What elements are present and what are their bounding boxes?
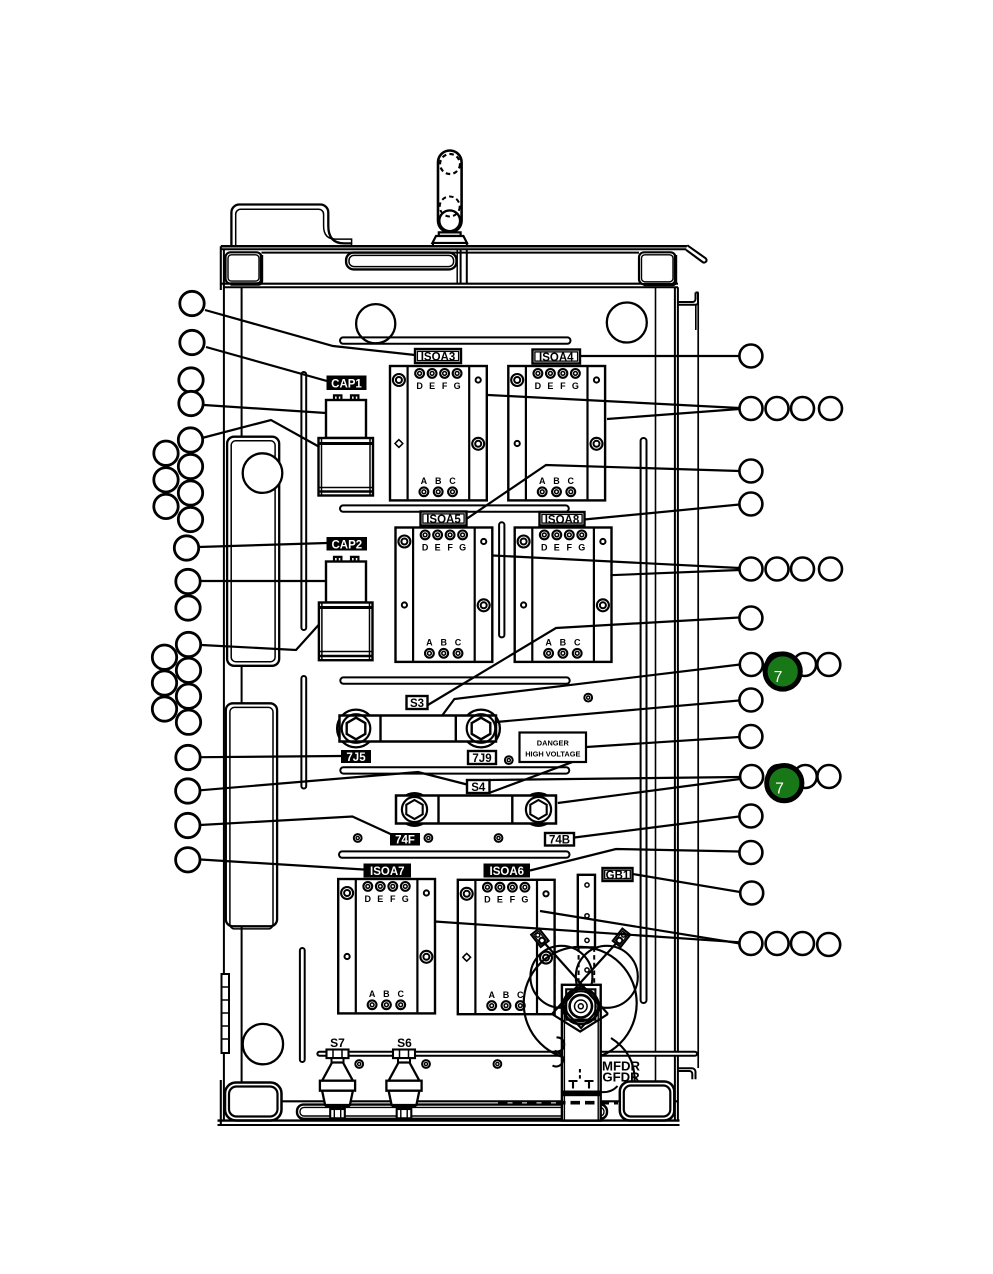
card guide strip (222, 974, 230, 1053)
leader from ISOA8 label (584, 505, 739, 520)
callout circle L9 (176, 779, 200, 803)
svg-text:7: 7 (774, 669, 783, 686)
svg-text:ISOA5: ISOA5 (426, 514, 461, 526)
dashed stub below connector (579, 1069, 581, 1080)
leader from ISOA6 label (530, 849, 739, 871)
shunt S4 bar (396, 796, 556, 824)
left edge rail (241, 287, 243, 1101)
callout row R5 (740, 558, 763, 581)
module ISOA3 (390, 366, 487, 500)
top rail bottom line (221, 283, 678, 285)
label S3 (407, 696, 428, 710)
callout green 7a (765, 654, 800, 689)
hole bottom-left (243, 1024, 283, 1064)
callout circle L5 (174, 536, 198, 560)
leader from ISOA4 right edge (607, 409, 740, 419)
callout row R7 (740, 653, 763, 676)
leader from S3 label (427, 618, 739, 706)
leader from ISOA4 label (580, 355, 740, 357)
hold-down clamp T left (569, 1081, 578, 1089)
strap X line b (552, 938, 621, 1014)
connector diamond (561, 985, 600, 1028)
capacitor CAP2 body (326, 562, 366, 603)
leader from GB1 label (633, 874, 740, 892)
callout circle L4 (179, 391, 203, 415)
bottom interior line (224, 1100, 678, 1102)
insulator S6 (386, 1050, 421, 1119)
leader to ISOA3 label (205, 310, 415, 355)
module ISOA8 (515, 528, 612, 662)
top rail (221, 245, 688, 248)
shunt S4 left nut (402, 797, 427, 822)
bracket hole (243, 453, 283, 493)
ISOA3 keying diamond (395, 440, 403, 448)
CHASSIS (218, 151, 707, 1126)
callout circle L11 (176, 848, 200, 872)
screw right of S3 (584, 694, 592, 702)
svg-text:CAP2: CAP2 (331, 539, 362, 551)
left edge inner (223, 249, 225, 1120)
capacitor CAP2 terminals (334, 557, 341, 562)
svg-text:DANGER: DANGER (537, 738, 570, 747)
screw near 7J9 (505, 756, 513, 764)
bottom recess slot (297, 1105, 607, 1119)
label 74B (545, 833, 574, 847)
CALLOUTS (152, 291, 842, 956)
fan lobe left (530, 946, 592, 1008)
svg-text:74B: 74B (549, 835, 570, 847)
leader to CAP1 base (202, 420, 320, 447)
leader to CAP2 label (199, 543, 328, 547)
MODULES (338, 366, 611, 1014)
ISOA6 hidden edges (dashed) (521, 936, 555, 1014)
svg-text:ISOA7: ISOA7 (370, 866, 405, 878)
lifting handle top-left (231, 205, 351, 247)
svg-text:S7: S7 (330, 1036, 345, 1050)
svg-text:GB1: GB1 (606, 870, 630, 882)
stud pin hole bottom (439, 210, 460, 231)
bottom edge outer (218, 1119, 680, 1121)
interior top line (224, 286, 678, 288)
vent slot row3 (340, 677, 569, 683)
label 7J5 (inverse) (341, 750, 371, 764)
vertical slot left upper (301, 372, 306, 630)
SLOTS (300, 337, 647, 1062)
vertical slot center (499, 522, 504, 637)
shunt S4 right terminal outer (522, 793, 555, 826)
stud mount verticals (460, 249, 462, 284)
screw row under S4 c (495, 834, 503, 842)
stud pin hole top (hidden) (440, 154, 460, 174)
LABELS (327, 349, 641, 1085)
callout circle L7 (176, 596, 200, 620)
top rail front edge (262, 252, 640, 254)
label ISOA6 (inverse) (484, 864, 531, 879)
leader from S3 bar end (496, 701, 739, 723)
leader from S4 bar end (558, 779, 740, 803)
callout cluster 1 (178, 428, 202, 452)
callout circle L6 (176, 569, 200, 593)
label ISOA5 (421, 512, 467, 527)
SHUNTS (337, 694, 592, 842)
leader from ISOA6 area (540, 911, 740, 944)
callout circle R9 (739, 725, 762, 748)
connector channel (562, 985, 601, 1121)
label ISOA3 (415, 349, 461, 364)
callout circle R8 (739, 689, 762, 712)
right outer panel (679, 293, 696, 303)
shunt S4 right nut (526, 797, 551, 822)
module ISOA4 (508, 366, 605, 500)
right rail 4 (677, 287, 679, 1120)
shunt S3 left terminal outer (337, 710, 375, 748)
leader from ISOA7 right edge (435, 922, 740, 943)
label ISOA8 (540, 512, 585, 526)
callout circle R11 (739, 805, 762, 828)
corner foot bottom-left (225, 1083, 282, 1121)
stud base flange (439, 232, 461, 236)
vent slot row1 (340, 337, 571, 343)
right rail 1 (655, 287, 657, 1081)
callout circle R4 (739, 493, 762, 516)
module ISOA6 (458, 880, 555, 1014)
leader to ISOA7 label (201, 860, 364, 870)
label 74F (inverse) (390, 833, 420, 847)
leader from ISOA5 right edge (493, 556, 740, 569)
screw row under S4 a (354, 834, 362, 842)
strap V (552, 1014, 608, 1032)
top rail recess slot (346, 253, 456, 270)
svg-text:74F: 74F (395, 835, 415, 847)
callout circle R3 (739, 460, 762, 483)
screw right of S7 (355, 1060, 363, 1068)
shunt S4 left terminal outer (398, 793, 431, 826)
svg-text:HIGH VOLTAGE: HIGH VOLTAGE (525, 749, 580, 758)
wire arc left b (553, 1052, 564, 1066)
callout circle L1 (180, 291, 204, 315)
hold-down clamp T right (585, 1081, 594, 1089)
leader from S4 label to right (489, 777, 740, 780)
svg-text:S3: S3 (410, 698, 424, 710)
strap X line a (540, 938, 608, 1014)
svg-text:7J5: 7J5 (346, 752, 366, 764)
callout row R10 (740, 765, 763, 788)
svg-text:S6: S6 (397, 1036, 412, 1050)
corner foot top-left (226, 252, 262, 283)
label 7J9 (468, 751, 496, 765)
leader from S3 bar top (442, 665, 740, 717)
callout circle R12 (739, 841, 762, 864)
left edge outer (220, 246, 222, 290)
CAPS (319, 395, 374, 660)
svg-text:7J9: 7J9 (472, 753, 491, 765)
connector plate (566, 989, 595, 1019)
shunt S3 left nut (342, 714, 371, 743)
shunt S3 right terminal outer (462, 710, 500, 748)
vertical slot right (641, 438, 647, 1003)
callout circle R1 (739, 345, 762, 368)
module ISOA5 (396, 528, 493, 662)
leader to 7J5 label (202, 756, 342, 757)
hole top-right (607, 303, 647, 343)
connector rings (563, 989, 599, 1025)
callout circle L2 (180, 330, 204, 354)
LEADERS (199, 310, 741, 944)
callout row R14 (739, 932, 762, 955)
label ISOA7 (inverse) (364, 864, 412, 879)
GB1 mounting strip (578, 875, 595, 948)
callout circle R13 (740, 882, 763, 905)
capacitor CAP1 body (326, 400, 366, 438)
callout circle L3 (179, 368, 203, 392)
capacitor CAP1 base (319, 438, 374, 496)
leader DANGER to S4 (489, 757, 586, 793)
label ISOA4 (533, 350, 581, 365)
mounting tab right (613, 929, 630, 947)
callout circle L10 (176, 813, 200, 837)
fan lobe right (576, 946, 638, 1008)
svg-text:ISOA6: ISOA6 (490, 866, 525, 878)
leader to CAP2 body (201, 580, 326, 582)
module ISOA7 (338, 879, 435, 1013)
screw row under S4 b (425, 834, 433, 842)
GB1 strip hidden part (578, 947, 580, 984)
bracket upper-left (227, 437, 279, 666)
dashed black line bottom (498, 1101, 618, 1105)
top rail right diagonal end (686, 245, 707, 262)
leader to 74F label (200, 817, 391, 835)
label GB1 (603, 868, 633, 882)
vertical slot left mid (301, 676, 306, 789)
label DANGER HIGH VOLTAGE (520, 733, 587, 763)
SWITCHES (320, 1050, 501, 1119)
right rail 3 (674, 287, 676, 1120)
bus rod bottom (317, 1052, 697, 1056)
capacitor CAP1 terminals (334, 395, 341, 400)
svg-text:GFDR: GFDR (602, 1070, 640, 1085)
FAN (317, 875, 697, 1121)
screw mid bottom (494, 1060, 502, 1068)
vertical slot left lower (300, 948, 305, 1062)
wire arc bottom (601, 1086, 618, 1092)
callout cluster 2 (176, 632, 200, 656)
svg-text:ISOA4: ISOA4 (539, 352, 574, 364)
shunt S3 bar (340, 716, 497, 742)
svg-text:7: 7 (775, 781, 784, 798)
callout circle R6 (739, 607, 762, 630)
hole top-left (356, 304, 395, 343)
vent slot row4 (340, 767, 569, 773)
corner foot bottom-right (620, 1082, 675, 1121)
wire arc right (611, 1038, 635, 1083)
leader to CAP1 label (206, 347, 327, 381)
vent slot row5 (339, 851, 570, 857)
corner foot top-right (639, 252, 676, 284)
label CAP2 (inverse) (327, 537, 368, 551)
leader from DANGER label (587, 737, 740, 747)
leader from ISOA8 right edge (610, 570, 739, 575)
lifting stud (438, 151, 462, 233)
leader to CAP2 base (202, 625, 320, 651)
mounting tab left (531, 929, 548, 947)
label CAP1 (inverse) (327, 376, 367, 391)
callout green 7b (767, 766, 802, 801)
callout circle L8 (176, 745, 200, 769)
shunt S3 right nut (467, 714, 496, 743)
svg-text:ISOA8: ISOA8 (545, 514, 580, 526)
label S4 (467, 780, 490, 794)
svg-text:S4: S4 (471, 782, 486, 794)
fan circle (524, 947, 637, 1060)
insulator S7 (320, 1050, 355, 1119)
callout row R2 (740, 397, 763, 420)
screw right of S6 (422, 1060, 430, 1068)
leader to S4 label (200, 772, 467, 790)
ISOA6 keying diamond (463, 953, 471, 961)
leader from ISOA5 label (466, 465, 739, 519)
connector black bar (562, 1091, 601, 1097)
wire arc left a (555, 1037, 565, 1051)
leader from ISOA3 right edge (488, 395, 740, 408)
capacitor CAP2 base (319, 603, 373, 661)
svg-text:CAP1: CAP1 (331, 378, 362, 390)
leader to CAP1 body (204, 405, 326, 413)
svg-text:ISOA3: ISOA3 (421, 352, 456, 364)
vent slot row2 (340, 505, 569, 511)
leader from 74B label (575, 817, 740, 838)
bracket lower-left (226, 703, 277, 926)
